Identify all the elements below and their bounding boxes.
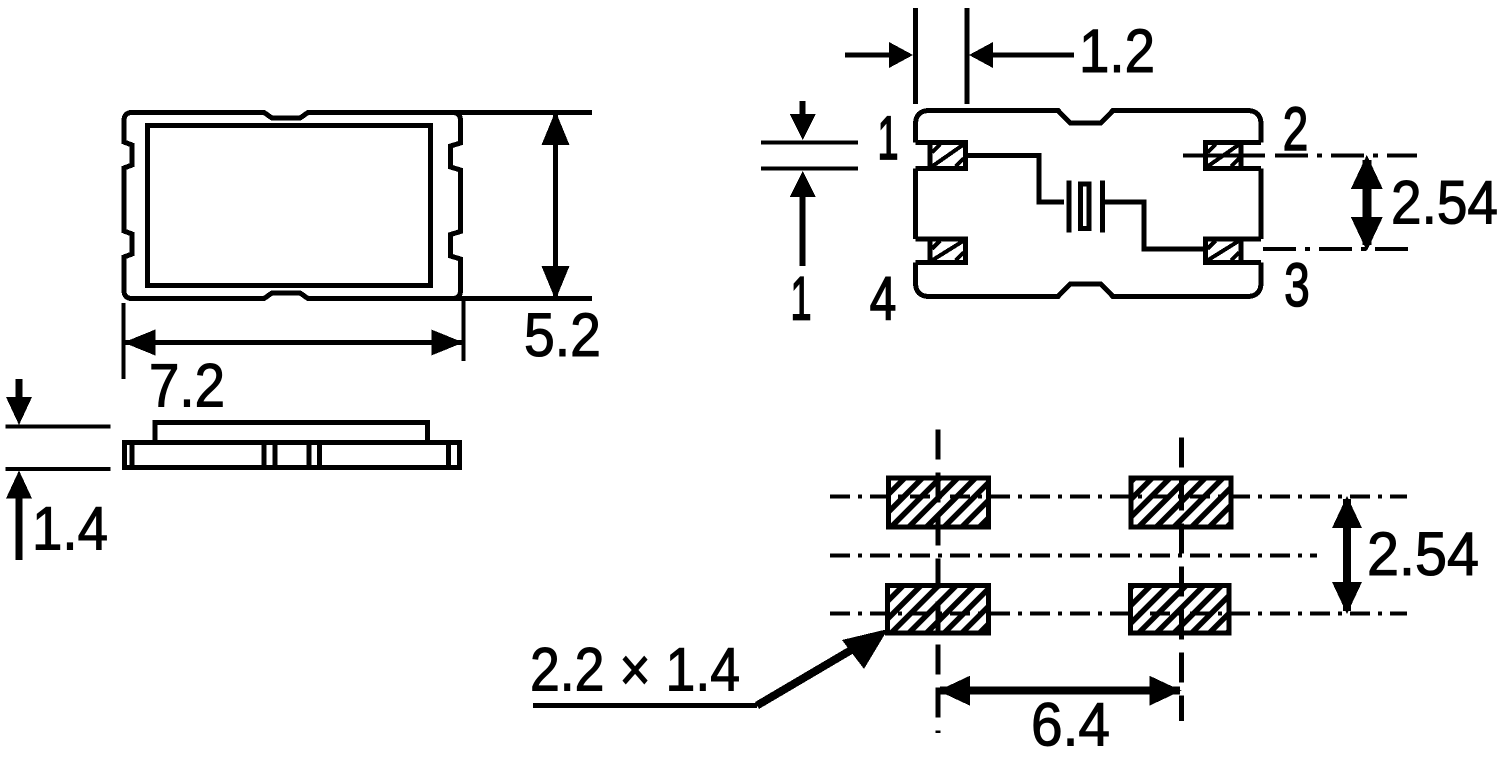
- svg-text:3: 3: [1284, 252, 1309, 320]
- svg-text:5.2: 5.2: [524, 301, 601, 369]
- svg-text:1: 1: [790, 264, 811, 333]
- svg-text:2: 2: [1283, 96, 1308, 164]
- svg-text:1.2: 1.2: [1079, 17, 1155, 85]
- svg-text:1.4: 1.4: [32, 495, 108, 563]
- svg-text:2.54: 2.54: [1391, 169, 1497, 237]
- svg-text:6.4: 6.4: [1031, 690, 1110, 752]
- svg-text:1: 1: [877, 104, 898, 173]
- svg-text:4: 4: [870, 264, 896, 333]
- svg-text:2.54: 2.54: [1367, 520, 1479, 588]
- svg-text:7.2: 7.2: [149, 352, 225, 420]
- svg-text:2.2 × 1.4: 2.2 × 1.4: [530, 636, 740, 704]
